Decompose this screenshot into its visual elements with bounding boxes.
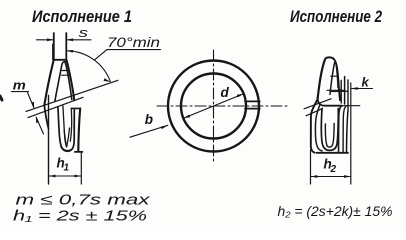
svg-text:m ≤ 0,7s max: m ≤ 0,7s max [16, 193, 151, 209]
svg-text:2: 2 [330, 164, 337, 175]
svg-text:Исполнение 2: Исполнение 2 [290, 8, 382, 26]
svg-text:b: b [145, 112, 153, 127]
svg-text:k: k [362, 75, 370, 90]
svg-text:Исполнение 1: Исполнение 1 [32, 8, 132, 26]
svg-text:h₂ = (2s+2k)± 15%: h₂ = (2s+2k)± 15% [278, 203, 393, 219]
svg-text:70°min: 70°min [107, 35, 160, 50]
svg-text:d: d [221, 85, 230, 100]
svg-text:h₁ = 2s ± 15%: h₁ = 2s ± 15% [13, 209, 147, 225]
svg-text:s: s [79, 25, 89, 40]
svg-text:1: 1 [64, 163, 70, 174]
svg-text:m: m [13, 78, 26, 93]
